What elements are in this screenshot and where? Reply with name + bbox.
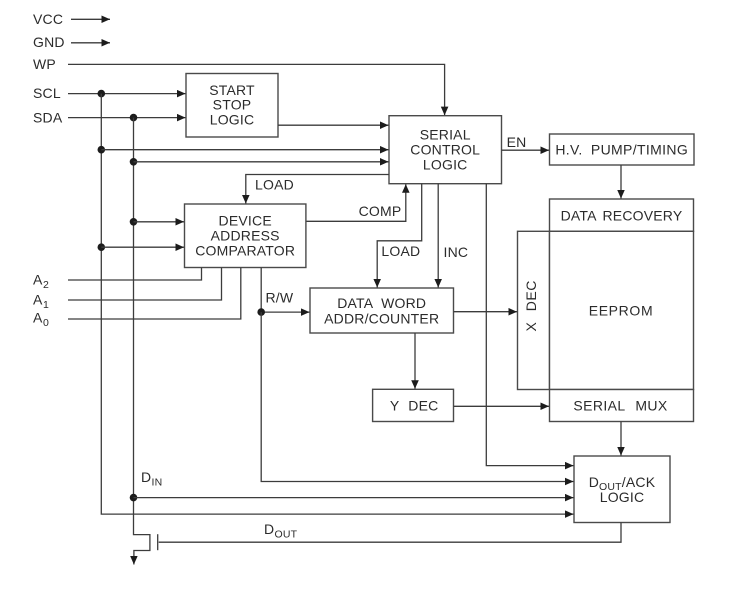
pin GND label xyxy=(33,34,65,50)
node SDA junction xyxy=(130,114,138,122)
svg-text:ADDR/COUNTER: ADDR/COUNTER xyxy=(324,310,439,326)
svg-text:LOGIC: LOGIC xyxy=(210,111,255,127)
svg-text:START: START xyxy=(209,82,255,98)
pin VCC label xyxy=(33,11,63,27)
block U6 DATA WORD ADDR COUNTER xyxy=(310,288,454,333)
net label LOAD xyxy=(255,177,294,193)
block U2 SERIAL CONTROL LOGIC xyxy=(389,116,502,184)
svg-text:H.V. PUMP/TIMING: H.V. PUMP/TIMING xyxy=(555,142,688,158)
block U1 START STOP LOGIC xyxy=(186,74,278,138)
node SDA branch to serial control xyxy=(130,158,138,166)
wire DOUT from Dout/Ack logic to output transistor gate xyxy=(159,523,621,543)
wire GND arrow xyxy=(71,42,110,44)
wire SDA branch to device address comparator xyxy=(134,221,185,223)
transistor Q1 output driver gate bar xyxy=(157,534,159,550)
svg-text:SCL: SCL xyxy=(33,85,61,101)
net label LOAD 2 xyxy=(381,243,420,259)
svg-text:Y DEC: Y DEC xyxy=(390,398,439,414)
node SCL junction xyxy=(98,90,106,98)
svg-text:DATA WORD: DATA WORD xyxy=(337,295,426,311)
node R/W junction xyxy=(257,308,265,316)
wire Y DEC to serial mux xyxy=(454,405,550,407)
svg-text:A: A xyxy=(33,272,43,288)
pin SDA label xyxy=(33,110,63,126)
wire DIN to Dout/Ack logic xyxy=(134,497,574,499)
svg-text:SDA: SDA xyxy=(33,110,63,126)
svg-text:X DEC: X DEC xyxy=(523,280,539,331)
svg-text:D: D xyxy=(141,469,151,485)
svg-text:EEPROM: EEPROM xyxy=(589,303,654,319)
svg-text:IN: IN xyxy=(152,477,163,489)
svg-text:A: A xyxy=(33,291,43,307)
wire WP to serial control logic top xyxy=(68,64,445,115)
svg-text:ADDRESS: ADDRESS xyxy=(211,228,280,244)
svg-text:D: D xyxy=(264,521,274,537)
block U5 DEVICE ADDRESS COMPARATOR xyxy=(185,204,306,268)
svg-text:COMPARATOR: COMPARATOR xyxy=(195,243,295,259)
wire VCC arrow xyxy=(71,18,110,20)
svg-text:A: A xyxy=(33,310,43,326)
svg-text:LOAD: LOAD xyxy=(255,177,294,193)
wire SDA branch to serial control logic xyxy=(134,161,389,163)
pin DIN label xyxy=(141,469,162,489)
net label R/W xyxy=(266,289,294,305)
wire data word counter to X DEC xyxy=(454,311,518,313)
wire SCL branch to serial control logic xyxy=(101,149,388,151)
wire serial mux to Dout/Ack logic xyxy=(620,422,622,456)
svg-text:SERIAL MUX: SERIAL MUX xyxy=(573,398,668,414)
wire COMP comparator to serial control xyxy=(306,184,406,221)
block U10 SERIAL MUX xyxy=(550,390,694,422)
wire LOAD serial control to comparator xyxy=(246,175,389,204)
svg-text:WP: WP xyxy=(33,56,56,72)
block U7 Y DEC xyxy=(373,389,454,421)
svg-text:LOGIC: LOGIC xyxy=(600,489,645,505)
svg-text:0: 0 xyxy=(43,317,49,329)
block U11 DOUT ACK LOGIC xyxy=(574,456,670,523)
pin A1 label xyxy=(33,291,49,311)
node SDA branch to comparator xyxy=(130,218,138,226)
svg-text:INC: INC xyxy=(444,244,469,260)
wire SCL vertical bus to Dout/Ack logic xyxy=(101,94,573,514)
block U4 DATA RECOVERY xyxy=(550,199,694,231)
svg-text:VCC: VCC xyxy=(33,11,63,27)
wire A1 to comparator xyxy=(68,268,222,301)
wire SDA vertical bus to output transistor xyxy=(134,118,150,565)
net label INC xyxy=(444,244,469,260)
pin A2 label xyxy=(33,272,49,292)
wire R/W to Dout/Ack logic xyxy=(261,312,573,481)
wire SDA to start stop logic xyxy=(68,117,186,119)
wire LOAD serial control to data word counter xyxy=(377,184,422,288)
node DIN junction xyxy=(130,494,138,502)
block U9 EEPROM xyxy=(550,231,694,389)
svg-text:DEVICE: DEVICE xyxy=(219,213,272,229)
wire data word counter to Y DEC xyxy=(414,333,416,389)
svg-text:LOAD: LOAD xyxy=(381,243,420,259)
net label DOUT xyxy=(264,521,298,541)
wire R/W comparator to data word counter xyxy=(261,268,309,313)
node SCL branch to serial control xyxy=(98,146,106,154)
net label EN xyxy=(507,134,527,150)
svg-text:EN: EN xyxy=(507,134,527,150)
wire EN serial control to HV pump xyxy=(502,149,550,151)
block U3 HV PUMP TIMING xyxy=(550,134,695,165)
block U8 X DEC xyxy=(518,231,550,389)
svg-text:1: 1 xyxy=(43,299,49,311)
wire HV pump to data recovery xyxy=(620,165,622,199)
net label COMP xyxy=(359,203,402,219)
svg-text:GND: GND xyxy=(33,34,65,50)
node SCL branch to comparator xyxy=(98,243,106,251)
wire start stop logic to serial control logic xyxy=(278,124,389,126)
wire serial control to Dout/Ack logic xyxy=(486,184,573,466)
pin SCL label xyxy=(33,85,61,101)
svg-text:OUT: OUT xyxy=(275,529,298,541)
wire INC serial control to data word counter xyxy=(437,184,439,288)
wire A0 to comparator xyxy=(68,268,241,320)
svg-text:COMP: COMP xyxy=(359,203,402,219)
svg-text:STOP: STOP xyxy=(213,97,252,113)
pin A0 label xyxy=(33,310,49,330)
svg-text:R/W: R/W xyxy=(266,289,294,305)
pin WP label xyxy=(33,56,56,72)
wire SCL to start stop logic xyxy=(68,93,186,95)
svg-text:DATA RECOVERY: DATA RECOVERY xyxy=(561,207,683,223)
svg-text:CONTROL: CONTROL xyxy=(410,141,480,157)
wire A2 to comparator xyxy=(68,268,202,281)
wire SCL branch to device address comparator xyxy=(101,246,184,248)
svg-text:SERIAL: SERIAL xyxy=(420,126,471,142)
svg-text:LOGIC: LOGIC xyxy=(423,156,468,172)
svg-text:2: 2 xyxy=(43,279,49,291)
